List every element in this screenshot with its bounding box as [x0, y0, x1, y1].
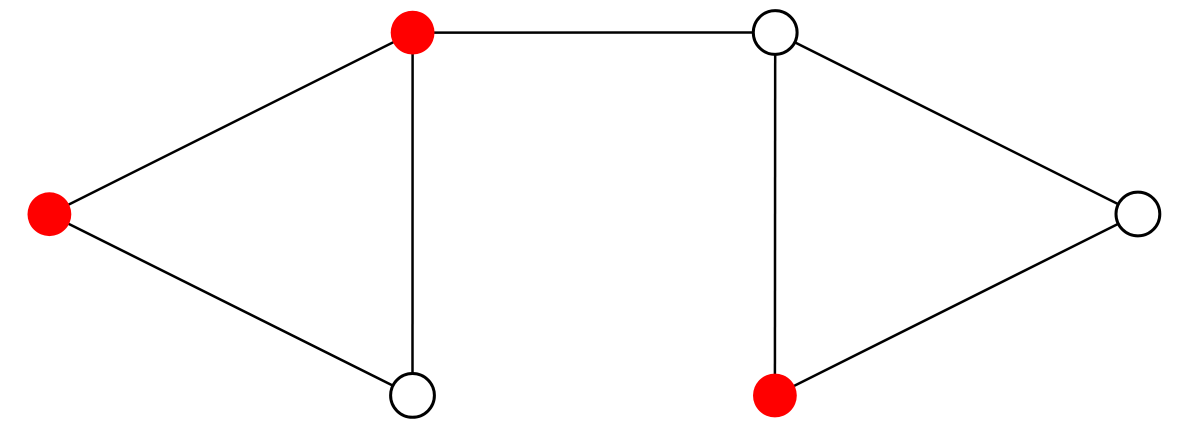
wire B-E	[774, 33, 777, 396]
wire C-A	[49, 33, 412, 215]
wire A-D	[411, 33, 414, 396]
wire F-E	[775, 214, 1138, 396]
node E (red)	[753, 374, 797, 418]
wire C-D	[49, 214, 412, 395]
node B (white)	[753, 11, 797, 55]
node D (white)	[391, 374, 435, 418]
wire A-B	[413, 31, 776, 34]
node A (red)	[391, 11, 435, 55]
node C (red)	[28, 192, 72, 236]
wire B-F	[775, 33, 1138, 215]
node F (white)	[1116, 192, 1160, 236]
